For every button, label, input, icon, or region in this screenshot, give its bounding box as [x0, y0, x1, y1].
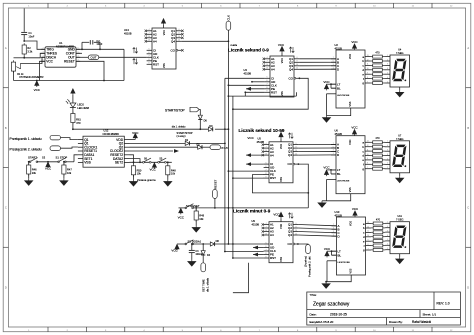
svg-text:10uF: 10uF	[28, 34, 34, 38]
switch S6	[143, 158, 152, 163]
net port arrows above U5	[288, 133, 293, 139]
svg-text:VSS: VSS	[349, 187, 352, 192]
svg-text:Licznik minut 0-9: Licznik minut 0-9	[233, 209, 271, 214]
svg-text:9: 9	[149, 63, 150, 65]
svg-text:U13: U13	[124, 28, 129, 32]
svg-text:Licznik sekund 10-59: Licznik sekund 10-59	[239, 128, 285, 133]
resistor R47	[63, 162, 65, 165]
svg-text:B: B	[467, 126, 469, 130]
svg-text:VSS: VSS	[280, 177, 283, 182]
wire pot top	[14, 57, 25, 59]
svg-text:8: 8	[266, 173, 267, 175]
svg-text:U12: U12	[104, 128, 109, 132]
svg-text:A: A	[467, 46, 469, 50]
svg-text:S3: S3	[42, 156, 46, 160]
pins U10	[332, 225, 337, 227]
counter U13 4510B box	[152, 28, 176, 69]
svg-text:7-SEG: 7-SEG	[396, 52, 404, 55]
svg-text:VDD: VDD	[350, 221, 353, 226]
svg-text:LE/STROBE: LE/STROBE	[338, 262, 351, 264]
svg-text:12: 12	[178, 40, 180, 42]
wire C1 junction to TRIG	[24, 41, 45, 49]
svg-text:Przełącznik 1. układu: Przełącznik 1. układu	[10, 137, 42, 141]
power flag VCC above LED2	[71, 89, 75, 95]
svg-text:9: 9	[267, 91, 268, 93]
svg-text:7: 7	[266, 249, 267, 251]
switch line (zmiana gracza)	[130, 161, 172, 163]
svg-text:10k: 10k	[67, 171, 72, 175]
svg-text:Licznik sekund 0-9: Licznik sekund 0-9	[228, 48, 269, 53]
svg-text:VCC: VCC	[324, 247, 331, 251]
svg-text:VSS: VSS	[163, 63, 166, 68]
svg-text:VCC: VCC	[34, 88, 41, 92]
svg-text:BL: BL	[337, 86, 341, 90]
svg-text:CO: CO	[171, 48, 176, 52]
svg-text:6: 6	[267, 80, 268, 82]
counter U9 4510B box	[269, 222, 293, 263]
ground below R47	[63, 174, 65, 179]
svg-text:U10: U10	[335, 210, 340, 214]
svg-text:VCC: VCC	[323, 80, 330, 84]
wire S4 to row2 CO column	[193, 207, 309, 209]
wire CI row1 from left bus	[225, 77, 265, 79]
svg-text:10k: 10k	[171, 172, 176, 176]
svg-text:13: 13	[367, 141, 369, 143]
svg-text:C: C	[467, 206, 469, 210]
counter U3 4510B box	[270, 56, 294, 97]
digit segments U7	[392, 145, 409, 168]
svg-text:D: D	[5, 285, 7, 289]
svg-text:470: 470	[376, 218, 381, 221]
svg-text:U2: U2	[335, 43, 339, 47]
ground for U6 VSS	[322, 194, 351, 201]
ground below U11	[399, 254, 401, 257]
pins U2	[331, 58, 336, 60]
pins U5	[264, 144, 269, 146]
svg-text:A4: A4	[270, 153, 274, 157]
svg-text:7: 7	[149, 56, 150, 58]
LED LED2	[72, 95, 74, 103]
svg-text:CLK: CLK	[226, 15, 230, 21]
svg-text:VSS: VSS	[349, 101, 352, 106]
node junction C1/R2	[23, 40, 25, 42]
svg-text:12: 12	[367, 59, 369, 61]
svg-text:U5: U5	[258, 136, 262, 140]
wire U1 VCC pin to rail	[40, 61, 46, 80]
wire CLOCK2 with arrow	[130, 150, 174, 152]
svg-text:Rafał Wasicki: Rafał Wasicki	[412, 320, 431, 324]
wire R2 bottom to THRES	[24, 53, 45, 58]
title block	[307, 292, 461, 325]
wire RST row3 from bus	[232, 257, 234, 259]
svg-text:Drawn By:: Drawn By:	[389, 320, 403, 324]
svg-text:13: 13	[265, 153, 267, 155]
pin stubs U4	[386, 56, 391, 58]
svg-text:C: C	[5, 206, 7, 210]
svg-text:10: 10	[265, 230, 267, 232]
svg-text:10: 10	[367, 235, 369, 237]
svg-text:REV: 1.0: REV: 1.0	[437, 302, 450, 306]
wire GND pin right and down to rail	[76, 48, 124, 50]
svg-text:4510B: 4510B	[124, 31, 132, 35]
diode D4 vertical	[202, 244, 204, 251]
wire UD row1	[252, 81, 265, 83]
svg-text:(1-stop): (1-stop)	[177, 134, 186, 138]
pin stubs U11	[386, 222, 391, 224]
svg-text:11: 11	[367, 149, 369, 151]
svg-text:Przełącznik 2. ukł.: Przełącznik 2. ukł.	[308, 256, 312, 277]
wire D2 to net flag	[202, 146, 210, 148]
wire CLK row2 from bus	[228, 170, 230, 172]
svg-text:RESET: RESET	[213, 179, 217, 189]
svg-text:(A 4,2): (A 4,2)	[222, 147, 228, 150]
switch S5	[158, 158, 167, 163]
svg-text:470: 470	[375, 137, 380, 140]
svg-text:Date:: Date:	[310, 312, 317, 316]
svg-text:4511B: 4511B	[335, 46, 343, 50]
svg-text:5: 5	[149, 49, 150, 51]
svg-text:VCC: VCC	[352, 207, 359, 211]
svg-text:VDD: VDD	[281, 58, 284, 63]
svg-text:VCC: VCC	[351, 126, 358, 130]
svg-text:VDD: VDD	[349, 139, 352, 144]
svg-text:7: 7	[368, 248, 369, 250]
svg-text:VDD: VDD	[349, 54, 352, 59]
svg-text:10: 10	[367, 154, 369, 156]
bus wire x=224.9	[224, 78, 226, 251]
capacitor C3	[191, 244, 193, 250]
svg-text:BL: BL	[337, 172, 341, 176]
pin stubs U7	[386, 141, 391, 143]
svg-text:A4: A4	[271, 68, 275, 72]
ground below R50	[133, 175, 135, 180]
wire RESET2 down to switch line	[130, 155, 134, 163]
svg-text:LE/STROBE: LE/STROBE	[337, 181, 350, 183]
svg-text:470: 470	[375, 51, 380, 54]
svg-text:12: 12	[367, 145, 369, 147]
svg-text:10: 10	[266, 64, 268, 66]
wire CLK row3 from bus	[224, 251, 226, 253]
svg-text:10: 10	[367, 68, 369, 70]
counter U5 4510B box	[269, 142, 293, 183]
svg-text:VDD: VDD	[280, 224, 283, 229]
resistor R2	[22, 43, 26, 56]
svg-text:START: START	[28, 156, 37, 160]
diode D2	[198, 145, 202, 149]
wire DISCH to pot wiper	[21, 57, 45, 64]
power flag VCC left of S2	[177, 243, 186, 245]
wire U2 LE down to ground node	[327, 93, 337, 95]
svg-text:VCC: VCC	[351, 40, 358, 44]
svg-text:11: 11	[367, 231, 369, 233]
resistor R48	[167, 162, 169, 164]
svg-text:9: 9	[367, 158, 368, 160]
svg-text:TITLE:: TITLE:	[310, 294, 318, 297]
no-connect marks U13 Q1-Q3 and CO	[181, 30, 183, 32]
svg-text:9: 9	[266, 256, 267, 258]
svg-text:4510B: 4510B	[257, 140, 265, 144]
svg-text:Q4: Q4	[288, 153, 292, 157]
svg-text:Przełącznik 2. układu: Przełącznik 2. układu	[10, 147, 42, 151]
svg-text:VSS: VSS	[280, 257, 283, 262]
7-segment display U11 box	[390, 222, 410, 254]
wires U2 outputs to resistors	[370, 56, 372, 58]
pins U9	[264, 224, 269, 226]
svg-text:SET2: SET2	[115, 161, 123, 165]
ground below R48	[167, 175, 169, 180]
svg-text:6: 6	[149, 52, 150, 54]
svg-text:A: A	[5, 46, 7, 50]
svg-text:9: 9	[368, 240, 369, 242]
svg-text:A4: A4	[270, 233, 274, 237]
ground below R49	[195, 220, 197, 226]
svg-text:7: 7	[267, 84, 268, 86]
flip-flop U12 CD4013BM96 box	[83, 136, 124, 167]
svg-text:CO: CO	[288, 162, 293, 166]
svg-text:R2: R2	[27, 46, 31, 50]
net flag zmiana (horizontal oval)	[210, 145, 221, 150]
svg-text:10k: 10k	[137, 172, 142, 176]
wire below U9 to bus	[233, 263, 249, 293]
net flag SET TIME (vertical)	[202, 255, 204, 263]
svg-text:U3: U3	[244, 68, 248, 72]
svg-text:VSS: VSS	[84, 161, 91, 165]
svg-text:10: 10	[296, 64, 298, 66]
wire U13 Q4 to CLK bus	[181, 40, 228, 42]
svg-text:SET TIME: SET TIME	[202, 279, 206, 292]
svg-text:12: 12	[295, 233, 297, 235]
svg-text:10: 10	[265, 150, 267, 152]
arrow UD row3	[253, 247, 264, 249]
svg-text:Q4: Q4	[288, 233, 292, 237]
digit segments U4	[392, 59, 409, 82]
wires resistors to U4	[385, 56, 386, 58]
svg-text:START/STOP: START/STOP	[165, 108, 185, 112]
svg-text:100nF: 100nF	[195, 253, 202, 256]
svg-text:8: 8	[367, 163, 368, 165]
resistor R50	[133, 162, 135, 164]
svg-text:13: 13	[367, 222, 369, 224]
svg-text:7-SEG: 7-SEG	[396, 138, 404, 141]
svg-text:13: 13	[266, 68, 268, 70]
svg-text:OUT: OUT	[91, 55, 97, 59]
svg-text:RESET: RESET	[64, 60, 75, 64]
potentiometer R1	[11, 60, 15, 73]
ground for U2 VSS	[327, 108, 351, 116]
ground below U7	[399, 173, 401, 176]
svg-text:10: 10	[148, 36, 150, 38]
arrow A4 row2	[246, 154, 264, 156]
svg-text:5: 5	[266, 162, 267, 164]
diode D1	[185, 141, 189, 145]
wire from top border to C1	[23, 8, 25, 31]
svg-text:LED-3MM: LED-3MM	[77, 106, 89, 110]
wire pot bottom to VCC rail	[13, 71, 15, 80]
wires switch line	[29, 161, 30, 163]
decoder U10 4511B box	[337, 217, 366, 275]
svg-text:13: 13	[367, 55, 369, 57]
svg-text:VDD: VDD	[280, 144, 283, 149]
ground below C3	[191, 253, 193, 260]
svg-text:2018-10-25: 2018-10-25	[330, 312, 347, 316]
svg-text:10nF: 10nF	[96, 42, 102, 46]
svg-text:CO: CO	[289, 76, 294, 80]
ground below R46	[28, 174, 30, 179]
svg-text:4511B: 4511B	[335, 213, 343, 217]
wire RST row2 from bus	[232, 177, 234, 179]
wires U5 Q outputs to U6 inputs	[298, 144, 336, 146]
wire U10 LE down to ground node	[327, 260, 337, 262]
svg-text:Zmiana gracza: Zmiana gracza	[137, 178, 156, 182]
wires U6 outputs to resistors	[370, 141, 372, 143]
svg-text:10k: 10k	[32, 171, 37, 175]
diode D8	[210, 242, 214, 246]
power flag VCC between switches	[46, 162, 50, 168]
power flag VCC left of S4	[179, 207, 186, 209]
bus wire x=228.4	[227, 41, 229, 244]
loop RST row1 under box	[228, 92, 245, 96]
wires resistors to U7	[385, 141, 386, 143]
svg-text:(0-pełny): (0-pełny)	[303, 256, 307, 267]
decoder U6 4511B box	[336, 136, 365, 194]
svg-text:7: 7	[266, 169, 267, 171]
svg-text:470: 470	[76, 121, 81, 125]
svg-text:7: 7	[367, 81, 368, 83]
loop CO U3 down to bus	[299, 77, 301, 79]
svg-text:RST: RST	[153, 62, 159, 66]
net port arrows above U3	[289, 47, 294, 53]
svg-text:7: 7	[367, 167, 368, 169]
svg-text:VDD: VDD	[163, 30, 166, 35]
svg-text:10: 10	[178, 36, 180, 38]
node junction R2 bottom / pot	[23, 57, 25, 59]
svg-text:A4: A4	[153, 40, 157, 44]
svg-text:dla 1. układu: dla 1. układu	[172, 125, 186, 128]
svg-text:7-SEG: 7-SEG	[396, 219, 404, 222]
digit segments U11	[392, 226, 409, 249]
resistor R49	[195, 208, 197, 211]
bus arrows on OUT wire	[133, 48, 138, 54]
wire RESET pin right and down	[76, 61, 104, 80]
svg-text:RST: RST	[270, 176, 276, 180]
svg-text:RST: RST	[271, 90, 277, 94]
pins U6	[331, 144, 336, 146]
svg-text:CLKPM: CLKPM	[230, 45, 237, 47]
op-amp timer U1 NE555	[45, 47, 76, 67]
svg-text:CO: CO	[288, 242, 293, 246]
svg-text:B: B	[5, 126, 7, 130]
svg-text:12: 12	[296, 68, 298, 70]
svg-text:6: 6	[266, 166, 267, 168]
svg-text:LE/STROBE: LE/STROBE	[337, 95, 350, 97]
wire PE row2 loop	[252, 175, 308, 193]
svg-text:Q4: Q4	[289, 67, 293, 71]
svg-text:4511B: 4511B	[335, 132, 343, 136]
wire S2 to D8 and bus	[193, 243, 211, 245]
net port arrows above U9	[288, 213, 293, 219]
capacitor C2	[81, 48, 83, 50]
svg-text:8: 8	[149, 59, 150, 61]
svg-text:5: 5	[266, 242, 267, 244]
svg-text:VCC: VCC	[45, 166, 52, 170]
arrow PE row3	[253, 254, 264, 256]
diode D9	[208, 127, 212, 131]
svg-text:EasyEDA V5.8.20: EasyEDA V5.8.20	[310, 320, 334, 324]
svg-text:8: 8	[368, 244, 369, 246]
svg-text:3.3k: 3.3k	[27, 49, 33, 53]
svg-text:8: 8	[267, 87, 268, 89]
svg-text:9: 9	[266, 176, 267, 178]
net flag at U9 CO (0-pelny)	[297, 243, 299, 245]
svg-text:RST: RST	[270, 256, 276, 260]
pin stubs U1	[41, 48, 45, 50]
svg-text:Sheet: 1/1: Sheet: 1/1	[423, 312, 437, 316]
power flag VCC of 555 block	[36, 80, 38, 82]
svg-text:13: 13	[148, 40, 150, 42]
7-segment display U7 box	[390, 141, 410, 173]
ground for U10 VSS	[326, 275, 351, 282]
wires resistors to U11	[384, 222, 387, 224]
power flag VCC at U12 VDD	[130, 139, 136, 141]
capacitor C1	[21, 31, 27, 33]
wires U3 Q outputs to U2 inputs	[299, 58, 336, 60]
ground below U4	[399, 87, 401, 90]
svg-text:VSS: VSS	[281, 91, 284, 96]
svg-text:11: 11	[367, 64, 369, 66]
wire CLK row1 from bus	[228, 84, 230, 86]
wire OUT to U13 CLK	[99, 56, 147, 58]
pins U13	[147, 30, 152, 32]
wire CI row2	[246, 163, 264, 165]
svg-text:Zegar szachowy: Zegar szachowy	[313, 302, 350, 308]
svg-text:10k: 10k	[199, 217, 204, 221]
svg-text:BL: BL	[338, 253, 342, 257]
wire RST row1	[245, 91, 264, 93]
svg-text:VCC: VCC	[178, 215, 185, 219]
resistor R46	[28, 162, 30, 165]
svg-text:VCC: VCC	[150, 168, 157, 172]
bus wire x=232.9	[232, 96, 234, 258]
wire flag to D6	[199, 110, 200, 116]
wire CI row3 from S2 line	[233, 243, 264, 245]
wire D1 to bus	[190, 142, 225, 144]
wire CO U5 down right side	[298, 163, 300, 165]
svg-text:CD4013BM96: CD4013BM96	[103, 132, 120, 136]
wire STOP to U12 DATA1	[74, 155, 78, 162]
net flag OUT	[76, 56, 88, 58]
svg-text:9: 9	[367, 73, 368, 75]
decoder U2 4511B box	[336, 50, 365, 108]
VCC rail bottom of 555	[14, 80, 125, 82]
resistor R61	[72, 107, 74, 113]
svg-text:VCC: VCC	[46, 60, 53, 64]
wire Q2bar to D2	[130, 146, 198, 148]
power flag VCC for U13	[161, 19, 165, 25]
svg-text:13: 13	[265, 233, 267, 235]
svg-text:10: 10	[295, 150, 297, 152]
pins U3	[265, 58, 270, 60]
wires U10 outputs to resistors	[370, 223, 372, 225]
svg-text:10: 10	[295, 230, 297, 232]
svg-text:VCC: VCC	[278, 43, 285, 47]
svg-text:VCC: VCC	[323, 166, 330, 170]
wire R61 to horizontal net	[72, 123, 74, 130]
wire U6 LE down to ground node	[327, 179, 337, 181]
horizontal wire to bus (dla 1. ukladu)	[73, 128, 209, 130]
wire DATA2 to junction	[130, 159, 141, 163]
svg-text:12: 12	[295, 153, 297, 155]
svg-text:U9: U9	[252, 219, 256, 223]
